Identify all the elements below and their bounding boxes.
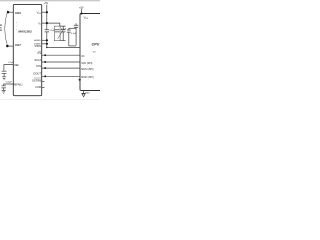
svg-text:4.7μF: 4.7μF (61, 28, 67, 30)
wire DGND stub (42, 43, 47, 45)
svg-text:DOUT: DOUT (33, 72, 41, 76)
node VDD junction (46, 11, 48, 13)
svg-text:MOSI (SPI): MOSI (SPI) (81, 68, 93, 71)
svg-text:I/O: I/O (81, 55, 84, 58)
ellipsis dots CH0..CH7 (15, 21, 18, 24)
svg-text:COM: COM (35, 86, 41, 89)
svg-text:0.01μF: 0.01μF (6, 82, 13, 84)
wire CS to CPU (42, 54, 80, 56)
capacitor C4 plates (68, 28, 70, 46)
top page band (0, 0, 100, 1)
node DIN wire dot (44, 67, 46, 69)
wire REF (4, 65, 13, 71)
capacitor C3 plates (62, 26, 64, 41)
capacitor C5 REF plates (2, 71, 7, 76)
svg-text:REF: REF (14, 64, 19, 67)
analog inputs brace (5, 11, 8, 48)
wire CPU GND (83, 91, 85, 94)
wire caps ground bus (69, 45, 76, 47)
svg-text:MISO (SPI): MISO (SPI) (81, 76, 93, 79)
background (0, 0, 100, 100)
wire VL (42, 23, 60, 26)
node gnd wire corner dot (46, 47, 48, 49)
svg-text:GND: GND (85, 93, 90, 95)
wire VDD (42, 11, 47, 13)
wire SCLK to CPU (42, 61, 80, 63)
svg-text:SSTRB: SSTRB (32, 78, 41, 82)
svg-text:CPU: CPU (92, 42, 100, 46)
node CS wire dot (44, 54, 46, 56)
wire CH7 input (7, 45, 13, 47)
node DOUT wire dot (44, 75, 46, 77)
IC U2 CPU box (80, 14, 103, 91)
node CH0 input dot (7, 11, 9, 13)
capacitor C3 bus (60, 26, 66, 41)
svg-text:CS: CS (37, 51, 41, 55)
node CH7 input dot (6, 45, 8, 47)
svg-text:AGND: AGND (34, 39, 41, 42)
node VL junction (46, 22, 48, 24)
svg-text:4.7μF: 4.7μF (8, 62, 14, 64)
node AGND junction (46, 39, 48, 41)
wire cap4 top (69, 27, 76, 29)
wire SSTRB stub (42, 81, 45, 83)
svg-text:REFADJ: REFADJ (13, 84, 23, 87)
capacitor C2 box (54, 26, 60, 41)
arrow diagonal in C2 (58, 30, 64, 39)
capacitor C7 plates (75, 23, 77, 45)
bottom page rule (0, 98, 100, 101)
node MISO junction blob (79, 79, 81, 81)
capacitor C6 REFADJ plates (2, 86, 6, 90)
svg-text:DIN: DIN (36, 64, 41, 68)
svg-text:SCLK: SCLK (34, 58, 41, 62)
svg-text:0.1μF: 0.1μF (71, 33, 77, 35)
svg-text:+5V: +5V (44, 2, 49, 5)
+5V rail (46, 5, 48, 48)
svg-text:CH7: CH7 (15, 43, 21, 47)
svg-text:+5V: +5V (79, 6, 84, 9)
wire ground to CPU (47, 46, 80, 48)
node CPU VDD junction (81, 13, 83, 15)
ground CPU (82, 93, 86, 97)
node SCLK wire dot (44, 61, 46, 63)
wire COM stub (42, 87, 45, 89)
wire DIN to CPU (42, 67, 80, 69)
capacitor C1 bypass plates (45, 30, 49, 32)
svg-text:0.1μF: 0.1μF (50, 30, 56, 32)
svg-text:MAX1202: MAX1202 (18, 30, 32, 34)
node DGND junction (46, 43, 48, 45)
capacitor C2 plates (55, 30, 60, 32)
ground REF (2, 77, 6, 80)
wire CH0 input (8, 11, 14, 13)
svg-text:I/O: I/O (93, 52, 96, 54)
svg-text:SCK (SPI): SCK (SPI) (81, 62, 92, 65)
svg-text:CH0: CH0 (15, 11, 21, 15)
IC U1 MAX1202 ADC box (13, 4, 41, 95)
analog inputs text sliver (0, 24, 2, 26)
ground REFADJ (2, 90, 6, 93)
wire CPU +5V (81, 9, 83, 14)
wire DOUT to CPU (42, 75, 80, 77)
wire AGND stub (42, 39, 47, 41)
svg-text:SHDN: SHDN (34, 46, 41, 48)
wire REFADJ (4, 84, 14, 86)
